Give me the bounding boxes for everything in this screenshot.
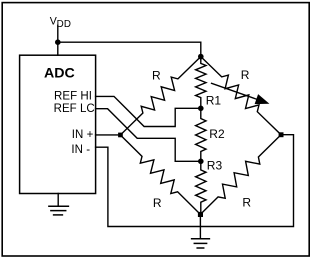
svg-text:R3: R3: [207, 159, 223, 173]
wire IN- to right bridge node via bottom rail: [96, 135, 294, 227]
node VDD junction: [55, 39, 61, 45]
resistor R upper-right bridge arm (variable): [201, 57, 281, 135]
svg-text:ADC: ADC: [44, 66, 75, 82]
wire ADC ground stem: [57, 194, 59, 207]
svg-text:DD: DD: [57, 19, 72, 30]
svg-text:R: R: [153, 196, 162, 210]
resistor R1: [196, 59, 206, 108]
wire arrow shaft of variable resistor: [212, 83, 258, 99]
node R2/R3 junction: [198, 159, 204, 165]
svg-text:R1: R1: [206, 94, 222, 108]
resistor R upper-left bridge arm: [120, 57, 200, 135]
resistor R3: [196, 161, 206, 212]
svg-text:REF LC: REF LC: [54, 103, 95, 115]
wire REF HI to R1/R2 junction: [96, 96, 201, 126]
svg-text:IN +: IN +: [72, 129, 94, 141]
svg-text:R: R: [242, 196, 251, 210]
svg-text:R: R: [241, 68, 250, 82]
ground under bridge: [192, 239, 210, 248]
node left bridge (IN+): [118, 133, 123, 138]
svg-text:R: R: [152, 68, 161, 82]
node top bridge: [198, 54, 204, 60]
resistor R lower-right bridge arm: [200, 135, 281, 215]
svg-text:REF HI: REF HI: [54, 90, 92, 102]
ground under ADC: [49, 206, 69, 215]
node bottom bridge: [198, 212, 203, 217]
wire bridge ground stem: [199, 214, 201, 238]
node right bridge: [279, 132, 284, 137]
ADC box U1: [20, 55, 96, 193]
node R1/R2 junction: [198, 106, 204, 112]
svg-text:IN -: IN -: [71, 144, 90, 156]
wire IN+ to left bridge node: [96, 134, 121, 136]
resistor R lower-left bridge arm: [120, 135, 200, 214]
wire VDD stem: [57, 25, 59, 55]
wire VDD rail to top node: [58, 42, 201, 59]
resistor R2: [196, 108, 206, 161]
svg-text:R2: R2: [209, 127, 225, 141]
wire REF LC to R2/R3 junction: [96, 109, 201, 162]
arrowhead of variable resistor: [255, 94, 270, 104]
